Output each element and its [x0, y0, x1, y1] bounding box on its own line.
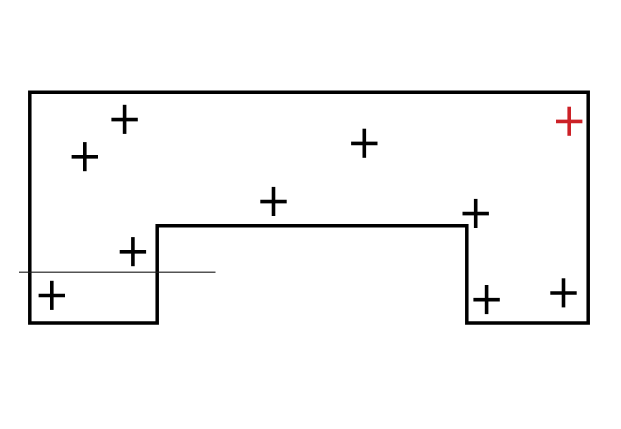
marker cross 5: [260, 187, 286, 216]
marker cross 2: [72, 142, 98, 171]
marker cross 6: [463, 199, 489, 228]
marker cross 1: [111, 105, 137, 134]
marker cross 7: [120, 237, 146, 266]
marker cross 3: [351, 129, 377, 158]
marker cross 4 (red): [556, 107, 582, 136]
marker cross 10: [550, 278, 576, 307]
thin reference line: [19, 271, 216, 273]
marker cross 8: [39, 281, 65, 310]
part outline (rectangle with bottom-middle notch): [30, 92, 588, 323]
marker cross 9: [473, 285, 499, 314]
